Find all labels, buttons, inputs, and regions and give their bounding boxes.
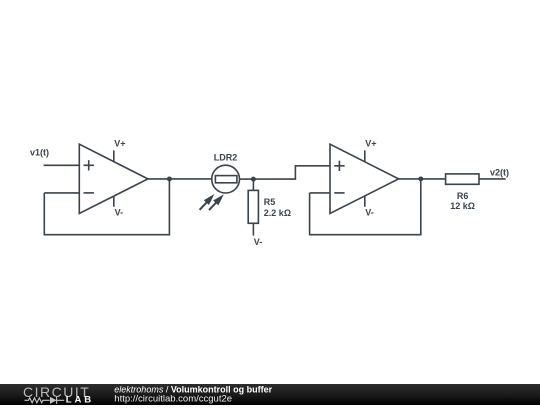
svg-text:v2(t): v2(t) xyxy=(490,168,509,178)
wire U1 output xyxy=(148,178,212,180)
wire LDR2 to node xyxy=(240,178,254,180)
svg-text:LAB: LAB xyxy=(66,395,94,405)
logo schematic flourish xyxy=(25,397,65,404)
svg-text:V-: V- xyxy=(254,237,263,247)
node junction U2 output xyxy=(418,176,423,181)
op-amp U2 minus sign xyxy=(334,192,344,194)
op-amp U2 xyxy=(330,144,399,213)
resistor R5 stub top xyxy=(252,179,254,190)
resistor R5 body xyxy=(248,190,258,223)
op-amp U2 plus sign xyxy=(334,161,344,171)
wire U2 output xyxy=(399,178,446,180)
photoresistor LDR2 circle xyxy=(212,165,240,193)
wire node to riser xyxy=(253,166,330,179)
op-amp U2 V+ stub xyxy=(364,150,366,161)
svg-text:12 kΩ: 12 kΩ xyxy=(450,201,475,211)
svg-text:http://circuitlab.com/ccgut2e: http://circuitlab.com/ccgut2e xyxy=(114,393,232,404)
op-amp U1 plus sign xyxy=(84,160,94,170)
wire R6 to v2 xyxy=(479,178,506,180)
op-amp U1 xyxy=(79,144,148,213)
svg-text:R5: R5 xyxy=(264,197,276,207)
wire U2 inverting input xyxy=(310,192,330,194)
node junction U1 output xyxy=(167,176,172,181)
svg-text:R6: R6 xyxy=(457,191,469,201)
svg-text:V+: V+ xyxy=(114,138,125,148)
logo diode xyxy=(50,397,57,404)
svg-text:LDR2: LDR2 xyxy=(214,152,238,162)
op-amp U1 V+ stub xyxy=(113,150,115,161)
svg-text:V-: V- xyxy=(115,208,124,218)
wire U2 feedback loop xyxy=(310,179,421,235)
svg-text:v1(t): v1(t) xyxy=(30,147,49,157)
svg-text:V+: V+ xyxy=(365,138,376,148)
photoresistor LDR2 body xyxy=(215,176,237,183)
op-amp U2 V- stub xyxy=(364,196,366,207)
wire U1 feedback loop xyxy=(44,179,169,235)
svg-text:2.2 kΩ: 2.2 kΩ xyxy=(264,208,291,218)
LDR2 light arrow 2 xyxy=(209,196,223,211)
op-amp U1 V- stub xyxy=(113,196,115,207)
wire U1 inverting input xyxy=(44,192,79,194)
svg-text:V-: V- xyxy=(365,208,374,218)
wire v1 input xyxy=(44,164,80,166)
node junction LDR2/R5 xyxy=(251,177,256,182)
resistor R6 body xyxy=(446,174,479,184)
op-amp U1 minus sign xyxy=(84,192,94,194)
LDR2 light arrow 1 xyxy=(200,195,214,210)
resistor R5 stub bottom xyxy=(252,223,254,235)
